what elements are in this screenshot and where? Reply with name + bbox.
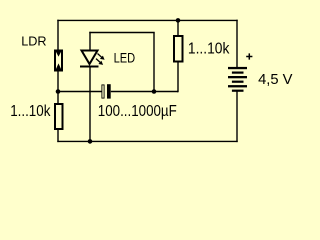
svg-text:1...10k: 1...10k: [10, 103, 51, 120]
svg-text:LDR: LDR: [21, 34, 46, 49]
svg-text:1...10k: 1...10k: [188, 41, 230, 58]
svg-text:100...1000µF: 100...1000µF: [98, 103, 177, 120]
svg-text:4,5 V: 4,5 V: [258, 72, 293, 88]
svg-text:LED: LED: [114, 51, 136, 66]
